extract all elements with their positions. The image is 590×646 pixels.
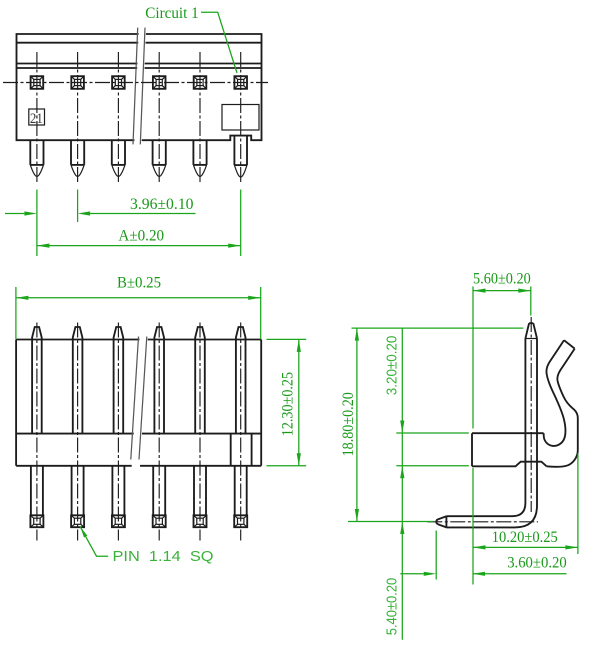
extension line pin bottom y521.5	[348, 521, 433, 523]
pin 1 square contact v1	[31, 76, 44, 89]
retention hook outer edge	[544, 340, 566, 446]
extension line right B	[260, 287, 262, 339]
dimension 3.20 and 5.40 stems	[384, 328, 405, 640]
svg-text:18.80±0.20: 18.80±0.20	[340, 392, 357, 456]
extension line pin1 v1	[36, 190, 38, 257]
pin 1 tail and square end v2	[30, 466, 43, 527]
pin centerlines v2	[37, 323, 241, 541]
Circuit 1 label	[145, 5, 237, 73]
pin 2 tail and square end v2	[71, 466, 84, 527]
pin 6 mating end v2	[236, 327, 246, 434]
dimension 18.80	[340, 328, 359, 521]
pin 5 square contact v1	[194, 76, 207, 89]
pin 4 solder tail v1	[153, 140, 166, 176]
extension line hook right x577.9	[577, 454, 579, 555]
side view body block	[472, 433, 547, 466]
pin 1 mating end v2	[32, 327, 42, 434]
pin 4 centerline v1	[158, 52, 160, 184]
pin 3 centerline v1	[117, 52, 119, 184]
pin 1 solder tail v1	[30, 140, 43, 176]
svg-text:3.20±0.20: 3.20±0.20	[384, 336, 401, 396]
svg-text:3.60±0.20: 3.60±0.20	[507, 555, 567, 572]
horizontal centerline view1	[3, 82, 268, 84]
label recess rectangle	[222, 105, 259, 131]
extension line body left x473	[472, 287, 474, 585]
dimension A	[37, 227, 241, 247]
svg-text:5.60±0.20: 5.60±0.20	[473, 270, 531, 287]
pin 3 square contact v1	[112, 76, 125, 89]
pin 5 solder tail v1	[193, 140, 206, 176]
extension line pin6 v1	[240, 190, 242, 257]
svg-text:Circuit 1: Circuit 1	[145, 5, 198, 22]
pin 3 mating end v2	[114, 327, 124, 434]
break gap mask view1	[134, 26, 146, 146]
pin 6 solder tail v1 (in notch)	[234, 136, 247, 177]
retention hook end cut	[564, 340, 575, 348]
horizontal pin side view	[436, 516, 515, 527]
dimension 3.60	[400, 555, 566, 576]
pin centerlines side view	[427, 317, 538, 522]
extension line pin tip top y328	[352, 327, 524, 329]
PIN 1.14 SQ label	[80, 527, 213, 565]
retention hook inner edge	[547, 349, 578, 467]
svg-text:PIN 1.14 SQ: PIN 1.14 SQ	[113, 548, 214, 565]
pin 5 mating end v2	[195, 327, 205, 434]
extension line pin2 v1	[77, 190, 79, 223]
connector body bottom view outline	[16, 340, 261, 466]
pin 6 centerline v1	[240, 52, 242, 184]
pin 6 tail and square end v2	[234, 466, 247, 527]
pin 1 centerline v1	[36, 52, 38, 184]
vertical pin side view	[512, 323, 537, 527]
pin 4 square contact v1	[153, 76, 166, 89]
break lines view2	[131, 337, 147, 460]
pin 2 centerline v1	[77, 52, 79, 184]
extension lines body top/bottom	[396, 433, 469, 466]
connector body front view outline	[17, 34, 262, 140]
pin 3 solder tail v1	[112, 140, 125, 176]
svg-text:3.96±0.10: 3.96±0.10	[130, 196, 194, 213]
svg-text:12.30±0.25: 12.30±0.25	[279, 372, 296, 436]
break lines view1	[133, 28, 145, 145]
pin 4 tail and square end v2	[153, 466, 166, 527]
pin 2 square contact v1	[71, 76, 84, 89]
dimension 5.60	[473, 270, 531, 292]
svg-text:10.20±0.25: 10.20±0.25	[492, 529, 558, 546]
break gap mask view2	[132, 336, 148, 468]
pin 2 mating end v2	[73, 327, 83, 434]
dimension 10.20	[473, 529, 578, 550]
pin 3 tail and square end v2	[112, 466, 125, 527]
svg-text:A±0.20: A±0.20	[118, 227, 164, 244]
pin 5 centerline v1	[199, 52, 201, 184]
pin 6 square contact v1	[234, 76, 247, 89]
pin 4 mating end v2	[154, 327, 164, 434]
svg-text:5.40±0.20: 5.40±0.20	[384, 578, 401, 636]
pin 2 solder tail v1	[71, 140, 84, 176]
svg-text:B±0.25: B±0.25	[117, 274, 161, 291]
extension line pin center x530.8	[530, 287, 532, 316]
polarization mark square 21	[29, 109, 45, 127]
dimension 3.96	[5, 196, 196, 216]
dimension 12.30	[267, 339, 307, 465]
pin 5 tail and square end v2	[194, 466, 207, 527]
extension line left B	[15, 287, 17, 339]
extension line pin tip x436.2	[435, 531, 437, 580]
dimension B	[16, 274, 261, 300]
